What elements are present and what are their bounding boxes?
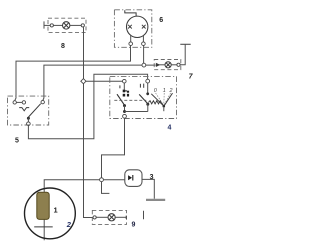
wire: node right to regulator 3 — [104, 179, 125, 181]
lamp 8 left terminal — [50, 24, 53, 27]
wire: blade 2 pivot down to junction rail — [147, 104, 149, 111]
wire: switch 4 bottom terminal down-left to sender node — [102, 118, 125, 177]
wire: tick to lamp 8 left terminal — [44, 24, 50, 26]
lamp L7 housing (dashed box) — [154, 60, 181, 70]
fuel tank 2 (circle) — [25, 188, 76, 239]
wiper fan line from 2 — [164, 93, 171, 105]
gauge 6 right terminal — [142, 42, 146, 46]
wire: pivot to bottom terminal — [27, 118, 29, 122]
wire: lamp 8 to right terminal — [70, 24, 81, 26]
lamp 8 bulb — [62, 22, 69, 29]
lamp 9 bulb — [108, 214, 115, 221]
wire: pivot 1 down to junction dot — [124, 106, 126, 112]
lamp 9 right terminal tick — [125, 216, 127, 219]
switch 5 thermal contact mark — [19, 108, 29, 111]
gauge unit U6 housing (dash-dot box) — [114, 10, 151, 48]
wire: T1 down to contact — [123, 83, 125, 90]
wiper fan line from 1 — [163, 93, 165, 105]
svg-text:1: 1 — [54, 205, 58, 214]
wire: lamp 9 leads — [96, 216, 126, 218]
wire: gauge 6 right terminal down to node on bus B — [143, 46, 145, 64]
switch 4 contact bar marks (filled) — [123, 90, 129, 97]
lamp 7 bulb — [165, 62, 171, 68]
switch 4 blade 1 — [117, 94, 125, 105]
svg-text:0: 0 — [154, 88, 157, 94]
wire: gauge 6 left terminal down and left to switch 5 (bus A) — [15, 46, 131, 101]
lamp L8 housing (dashed box) — [48, 18, 86, 32]
switch 4 contact tick left — [119, 85, 121, 88]
wiper arm left — [151, 94, 163, 106]
svg-text:4: 4 — [167, 125, 171, 132]
wire: lamp 7 leads — [159, 64, 177, 66]
switch 4 terminal T1 — [123, 79, 127, 83]
switch 5 terminal a — [13, 101, 16, 104]
gauge 6 left terminal — [129, 42, 133, 46]
svg-text:9: 9 — [131, 221, 135, 228]
switch S5 housing (dash-dot box) — [8, 96, 49, 125]
wire: junction dot to blade 2 pivot column — [125, 111, 148, 113]
switch 4 blade 2 — [139, 94, 148, 103]
resistor R (wiper dropping resistor) — [148, 101, 163, 106]
switch 4 blade 2 pivot dot — [146, 103, 149, 106]
stray wire mark right of lamp 9 — [143, 211, 145, 220]
voltage stabilizer U3 (rounded box) — [125, 170, 142, 187]
wire: terminal to lamp 8 — [53, 24, 62, 26]
gauge 6 right X mark — [142, 25, 146, 29]
switch 5 bottom terminal — [27, 122, 31, 126]
lamp 7 left terminal (filled) — [156, 64, 159, 67]
lamp L9 housing (dashed box) — [92, 210, 126, 224]
wire: node down stub — [102, 182, 110, 194]
wire: lamp 8 down the left trunk to lamp 9 (vertical x=83.4) — [84, 27, 94, 218]
gauge 6 top flag — [125, 10, 136, 16]
wire: T2 down to contact dot — [147, 83, 149, 93]
wiper pivot dot — [163, 105, 166, 108]
junction diamond node on trunk — [81, 79, 86, 84]
wiper pivot stub — [163, 108, 165, 111]
switch 4 T2 contact dot — [146, 92, 149, 95]
connector node (sender junction) — [100, 178, 104, 182]
wire: stabilizer 3 to ground — [142, 179, 154, 198]
svg-text:1: 1 — [163, 88, 166, 94]
tank internal contact bar — [34, 226, 53, 228]
switch 4 contact ticks middle pair — [140, 84, 143, 88]
gauge 6 pin stem right — [142, 35, 144, 42]
terminal post T-bar (supply tap) — [180, 43, 190, 45]
switch 4 terminal T2 — [146, 79, 150, 83]
switch 5 blade pivot dot — [27, 117, 30, 120]
lamp 7 right terminal — [177, 63, 180, 66]
svg-text:2: 2 — [169, 88, 173, 94]
stabilizer 3 symbol triangle — [128, 175, 132, 180]
connector tick left of lamp 8 — [43, 21, 45, 28]
switch 4 mechanical coupling (dashed) — [114, 99, 146, 101]
switch 4 junction dot — [123, 110, 126, 113]
wire: link terminal a to b — [16, 101, 22, 103]
gauge 6 left X mark — [128, 25, 132, 29]
wire: bus B from switch 5 right terminal to lamp 7 — [43, 65, 156, 100]
wiper arm right — [164, 93, 172, 106]
ground bar — [146, 199, 165, 201]
switch 4 blade 1 pivot dot — [123, 104, 126, 107]
lamp 8 right terminal — [81, 24, 84, 27]
wire: node left to tank sender — [44, 180, 99, 241]
wire: diamond node to switch 4 terminal T1 — [86, 80, 123, 82]
sender element 1 (olive slab) — [37, 192, 49, 219]
svg-text:6: 6 — [159, 17, 163, 24]
gauge 6 pin stem left — [130, 35, 132, 42]
lamp 9 left terminal — [93, 216, 96, 219]
wire: lamp 7 to terminal post — [180, 44, 185, 65]
switch 5 terminal c (right) — [41, 100, 44, 103]
connector node circle on bus B — [142, 63, 146, 67]
gauge 6 body circle — [127, 16, 148, 37]
stabilizer 3 symbol bar — [132, 175, 134, 181]
svg-text:8: 8 — [61, 43, 65, 50]
svg-text:5: 5 — [15, 138, 19, 145]
switch 4 bottom terminal — [123, 114, 127, 118]
switch 5 terminal b — [22, 101, 25, 104]
switch 5 blade — [29, 104, 41, 117]
wire: switch 5 bottom terminal to switch 4 position-1 contact — [28, 74, 147, 139]
svg-text:2: 2 — [66, 220, 72, 229]
wiper fan line from 0 — [156, 93, 164, 105]
switch S4 housing (dash-dot box) — [110, 77, 177, 119]
